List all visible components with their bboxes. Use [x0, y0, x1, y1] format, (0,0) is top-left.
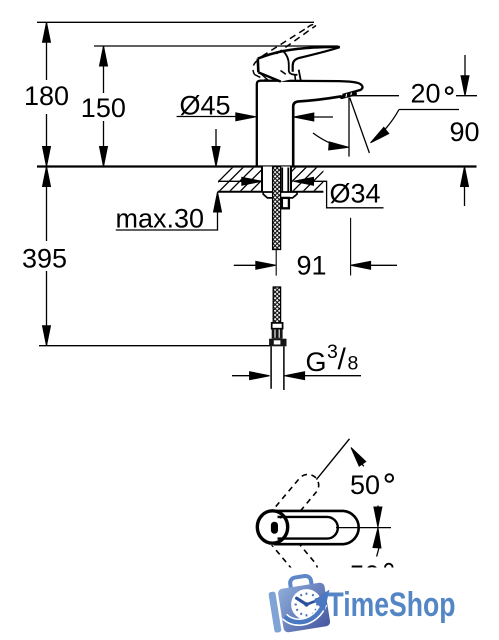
- lever arm top view: [278, 517, 338, 539]
- 50 leader arrow upper: [355, 456, 364, 467]
- dim 180 line: [46, 22, 48, 166]
- svg-text:8: 8: [348, 353, 359, 375]
- aerator outlet: [342, 94, 356, 98]
- corner dots: [279, 516, 281, 518]
- braided hose lower segment: [273, 287, 280, 323]
- dim 395 line: [46, 167, 48, 346]
- svg-text:/: /: [338, 343, 347, 376]
- clock face: [291, 589, 322, 620]
- connection pipe: [271, 346, 284, 390]
- logo bag group: [267, 573, 331, 634]
- dim 150 line: [103, 46, 105, 167]
- dim 20 reference line: [350, 95, 477, 97]
- dim 90 top arrow: [464, 55, 466, 78]
- svg-text:20: 20: [411, 78, 441, 108]
- dim G3/8 left arrow: [232, 375, 252, 377]
- dim 20 leader shelf: [399, 109, 459, 111]
- logo background: [246, 568, 499, 640]
- water stream vertical: [348, 98, 350, 157]
- handle base outline top view: [274, 511, 359, 544]
- washer flange: [263, 192, 297, 198]
- centerline: [336, 527, 391, 529]
- bag back stripe: [268, 591, 281, 633]
- bottom reference line: [39, 345, 270, 347]
- svg-text:max.30: max.30: [116, 204, 205, 234]
- logo pill on knob: [271, 522, 278, 534]
- angle arc right: [374, 110, 400, 141]
- svg-text:Ø45: Ø45: [180, 91, 231, 121]
- knob circle top view: [257, 511, 287, 543]
- bag handle: [289, 575, 312, 594]
- countertop top line: [37, 165, 477, 167]
- mounting shank: [262, 167, 291, 192]
- dashed raised lever position: [253, 25, 316, 81]
- svg-text:G: G: [306, 347, 327, 377]
- clock hands: [297, 598, 307, 604]
- mounting stud: [282, 168, 288, 192]
- lever top edge: [258, 47, 340, 59]
- svg-text:180: 180: [24, 81, 69, 111]
- dim 150 extension line: [94, 45, 338, 47]
- angle arc left: [313, 133, 345, 147]
- lever front edge: [256, 59, 259, 73]
- braided hose upper segment: [273, 167, 281, 250]
- dashed handle rotated -50: [268, 527, 322, 585]
- knob blank fill: [255, 509, 290, 546]
- svg-text:395: 395: [22, 244, 67, 274]
- dim 91 right arrow: [351, 261, 371, 269]
- lever bottom inner line: [260, 73, 269, 80]
- lever underside and neck: [293, 47, 340, 72]
- countertop hatching: [207, 166, 339, 193]
- countertop bottom line: [218, 191, 324, 193]
- 50 degree line: [316, 439, 349, 480]
- svg-text:90: 90: [450, 117, 480, 147]
- svg-text:150: 150: [81, 93, 126, 123]
- dim 90 bottom arrow: [461, 167, 469, 187]
- lever handle fill: [258, 47, 340, 82]
- dashed handle rotated +50: [269, 470, 323, 528]
- dim 91 right extension: [350, 218, 352, 276]
- svg-text:TimeShop: TimeShop: [328, 586, 456, 624]
- bag body: [277, 582, 330, 633]
- lever foot: [299, 70, 301, 81]
- hose centerline break: [275, 250, 277, 276]
- lever bottom edge: [258, 72, 280, 81]
- svg-text:3: 3: [327, 341, 338, 363]
- clock ticks: [295, 593, 319, 617]
- hose collar: [272, 323, 283, 329]
- dim Ø34 arrows: [218, 180, 244, 182]
- lever neck inner curve: [283, 51, 298, 75]
- svg-text:Ø34: Ø34: [330, 179, 381, 209]
- water stream 20deg: [350, 98, 370, 153]
- dim Ø34 leader: [312, 181, 384, 208]
- faucet body and spout outline: [257, 81, 363, 167]
- dim max.30 arrows: [215, 129, 217, 149]
- dim Ø45 leader: [177, 116, 238, 118]
- dim 91 left arrow: [234, 264, 258, 266]
- dim G3/8 right arrow: [285, 372, 305, 380]
- hose crimp sleeve: [272, 329, 283, 339]
- connection nut: [269, 339, 286, 347]
- swoosh arrow: [285, 604, 324, 622]
- svg-text:50: 50: [350, 470, 380, 500]
- dim 180 extension line top: [37, 21, 314, 23]
- svg-text:91: 91: [297, 250, 327, 280]
- vertical angle arrows: [377, 506, 379, 510]
